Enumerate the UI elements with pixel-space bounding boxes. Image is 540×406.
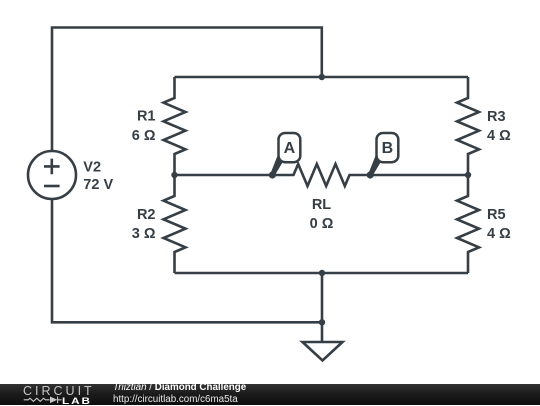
node B letter — [382, 140, 394, 157]
wire bottom rail — [175, 272, 469, 275]
resistor R5 — [457, 175, 479, 273]
svg-text:72 V: 72 V — [83, 177, 113, 193]
junction dot bottom rail center — [319, 270, 325, 276]
ground symbol triangle — [303, 342, 343, 361]
footer bar — [0, 384, 540, 405]
footer url — [113, 394, 238, 405]
junction dot ground tee — [319, 319, 325, 325]
svg-text:R1: R1 — [137, 109, 156, 125]
wire from V2 minus terminal down and across to ground node — [52, 199, 322, 322]
svg-text:R5: R5 — [487, 207, 506, 223]
junction dot mid rail right — [465, 172, 471, 178]
wire ground stem — [321, 273, 324, 342]
node A dot — [269, 171, 276, 178]
wire from V2 plus terminal up and across to top node — [52, 28, 322, 152]
voltage source V2 minus sign — [44, 185, 60, 188]
svg-text:4 Ω: 4 Ω — [487, 128, 511, 144]
node B flag tail — [369, 157, 382, 177]
node B dot — [367, 171, 374, 178]
svg-text:6 Ω: 6 Ω — [132, 128, 156, 144]
svg-text:B: B — [382, 140, 394, 157]
wire top rail — [175, 76, 469, 79]
node A flag tail — [271, 157, 284, 177]
CircuitLab logo resistor-diode drawing — [0, 384, 110, 405]
junction dot mid rail left — [171, 172, 177, 178]
node A flag box — [279, 133, 301, 162]
wire mid rail left segment — [175, 174, 273, 177]
svg-text:V2: V2 — [83, 159, 101, 175]
svg-text:A: A — [284, 140, 296, 157]
svg-text:R2: R2 — [137, 207, 156, 223]
resistor RL — [272, 164, 370, 186]
svg-text:RL: RL — [312, 197, 331, 213]
svg-text:0 Ω: 0 Ω — [310, 216, 334, 232]
junction dot top center — [319, 74, 325, 80]
resistor R1 — [164, 77, 186, 175]
voltage source V2 plus sign — [44, 159, 60, 175]
wire mid rail right segment — [370, 174, 468, 177]
resistor R2 — [164, 175, 186, 273]
CircuitLab logo word CIRCUIT — [23, 384, 95, 398]
svg-text:R3: R3 — [487, 109, 506, 125]
svg-text:3 Ω: 3 Ω — [132, 226, 156, 242]
svg-text:4 Ω: 4 Ω — [487, 226, 511, 242]
voltage source V2 circle — [28, 151, 76, 199]
resistor R3 — [457, 77, 479, 175]
node A letter — [284, 140, 296, 157]
node B flag box — [377, 133, 399, 162]
footer title Triiztian / Diamond Challenge — [113, 382, 246, 393]
CircuitLab logo word LAB — [62, 396, 92, 406]
